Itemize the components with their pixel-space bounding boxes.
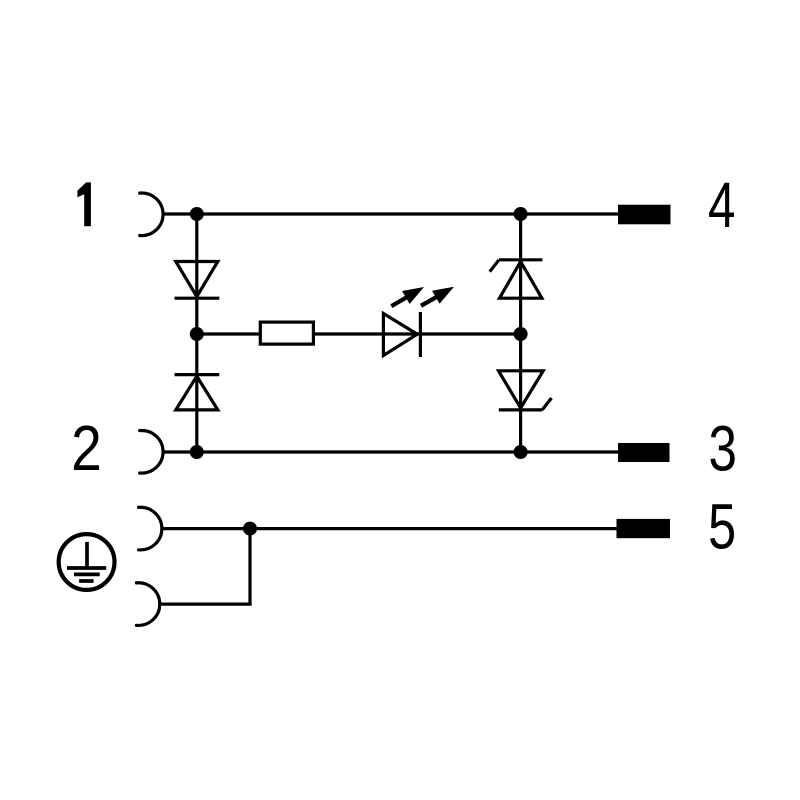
wire pin5 to terminal 5: [160, 527, 617, 530]
svg-text:2: 2: [71, 412, 102, 484]
node junction middle-right: [514, 327, 528, 341]
LED light arrow 2: [421, 287, 454, 306]
contact arc PE: [136, 583, 159, 626]
LED light arrow 1: [391, 287, 424, 306]
diode V1 (top-left, cathode down): [175, 262, 220, 299]
node junction bottom-right: [514, 445, 528, 459]
svg-text:5: 5: [708, 492, 736, 563]
zener diode V3 (top-right, cathode up): [490, 260, 543, 298]
terminal 3: [618, 443, 670, 462]
node junction top-left: [190, 207, 204, 221]
contact arc pin 2: [140, 431, 163, 474]
wire PE contact horizontal: [158, 602, 251, 605]
LED V5 triangle: [383, 314, 417, 356]
terminal 4: [618, 205, 671, 225]
node junction top-right: [514, 207, 528, 221]
contact arc pin 5: [139, 507, 162, 550]
wire left branch vertical: [195, 214, 198, 452]
contact arc pin 1: [140, 193, 163, 236]
terminal 5: [617, 519, 671, 538]
wire pin1 to terminal 4: [162, 212, 619, 215]
svg-text:4: 4: [708, 170, 735, 242]
wire middle rail: [197, 332, 521, 335]
node junction middle-left: [190, 327, 204, 341]
resistor R1: [260, 322, 313, 344]
svg-text:3: 3: [708, 414, 736, 485]
node junction bottom-left: [190, 445, 204, 459]
wire right branch vertical: [519, 214, 522, 452]
diode V2 (bottom-left, cathode up): [175, 375, 220, 410]
zener diode V4 (bottom-right, cathode down): [499, 371, 552, 410]
protective earth symbol: [59, 534, 115, 590]
LED cathode bar: [419, 312, 422, 357]
wire pin2 to terminal 3: [162, 450, 619, 453]
pin label 1: [77, 182, 91, 226]
node junction PE tap: [243, 522, 257, 536]
wire PE vertical to pin5 net: [248, 529, 251, 605]
